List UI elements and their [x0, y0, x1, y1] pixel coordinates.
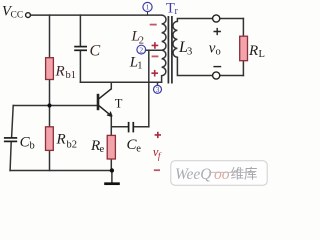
svg-text:T: T	[115, 97, 123, 111]
svg-text:CC: CC	[11, 10, 24, 20]
svg-text:o: o	[216, 47, 221, 58]
svg-text:1: 1	[137, 61, 142, 72]
svg-text:R: R	[55, 64, 65, 80]
svg-text:L: L	[259, 49, 265, 60]
svg-text:e: e	[136, 143, 141, 154]
svg-text:维库: 维库	[231, 166, 258, 181]
svg-text:1: 1	[146, 3, 150, 12]
svg-text:R: R	[248, 43, 258, 59]
svg-text:b2: b2	[67, 140, 78, 151]
svg-text:e: e	[100, 144, 105, 155]
svg-text:b: b	[30, 141, 35, 152]
svg-text:C: C	[90, 43, 101, 60]
svg-text:oo: oo	[214, 166, 230, 183]
svg-text:3: 3	[187, 47, 192, 58]
svg-text:b1: b1	[66, 70, 77, 81]
svg-text:2: 2	[139, 45, 143, 54]
svg-text:R: R	[56, 132, 66, 148]
svg-text:3: 3	[156, 85, 160, 94]
svg-text:2: 2	[139, 35, 144, 46]
svg-text:WeeQ: WeeQ	[175, 166, 211, 183]
